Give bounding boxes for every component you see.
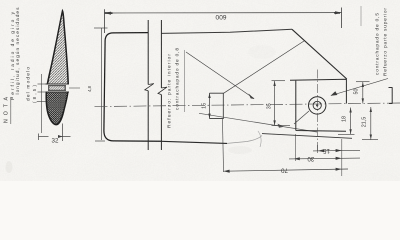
hole: outer circle (309, 97, 326, 114)
bottom step fading to tail (227, 136, 262, 144)
break symbol on line 1 (145, 84, 154, 91)
rear top diagonal edge (292, 29, 347, 79)
leader from right note with arrow (331, 79, 388, 96)
hole: inner circle (313, 101, 321, 109)
bottom width dimension of airfoil: line (39, 124, 71, 142)
bottom edge right of break (161, 141, 227, 143)
fuselage outline: left rounded end (104, 33, 162, 142)
airfoil section outline with crosshatch (46, 11, 68, 125)
hole center dot (316, 104, 318, 106)
extension line right of 600 (341, 8, 343, 29)
spar cross-section inside slot (49, 85, 66, 90)
extension line from box down (70 dim) (223, 119, 224, 172)
small corner tick at right edge (389, 87, 393, 104)
wing seat slot cut through airfoil (45, 84, 70, 92)
dim 15 horizontal (bottom right) (313, 149, 360, 152)
break line 1 (147, 20, 149, 150)
extension line left of 600 (103, 9, 105, 33)
break line 2 (160, 20, 162, 150)
faint pencil smudges (6, 45, 277, 173)
short leader toward hole from lower left (294, 111, 309, 124)
dimension 600: line with arrows (105, 12, 342, 14)
NOTA underline (10, 97, 12, 124)
dimension line (8,5) left of airfoil (37, 74, 46, 133)
slot box on centerline (210, 93, 224, 118)
underline of left label (184, 50, 186, 112)
vertical dimension line right of airfoil (94, 28, 108, 141)
tail bottom edge (262, 134, 352, 139)
centerline (dash-dot) through hole axis (95, 103, 400, 107)
extension lines for bottom dims (296, 134, 342, 176)
interior sloping line (wing seat) (199, 113, 317, 132)
top edge right of break (161, 29, 292, 33)
dim 18 vertical at tail (338, 108, 355, 135)
dim 15 on box left side (209, 93, 211, 119)
leader from slot (69, 87, 80, 89)
dim 30 horizontal (bottom right) (289, 157, 360, 160)
leader line 2 with arrow (224, 41, 305, 93)
dim 50 vertical right of plate (356, 82, 370, 104)
hole vertical centerline (317, 70, 319, 153)
dim 35 vertical (272, 81, 291, 126)
arrow tick on 32 dim (58, 135, 63, 138)
break symbol on line 2 (158, 87, 167, 95)
reinforcement plate at rear (290, 79, 347, 131)
faint arc near tail step (258, 131, 261, 147)
dim 21,5 vertical at tail (362, 107, 378, 140)
leader line 1 with arrow (186, 52, 254, 99)
paper grain overlay (0, 0, 400, 181)
dim 70 horizontal (bottom) (224, 169, 349, 171)
